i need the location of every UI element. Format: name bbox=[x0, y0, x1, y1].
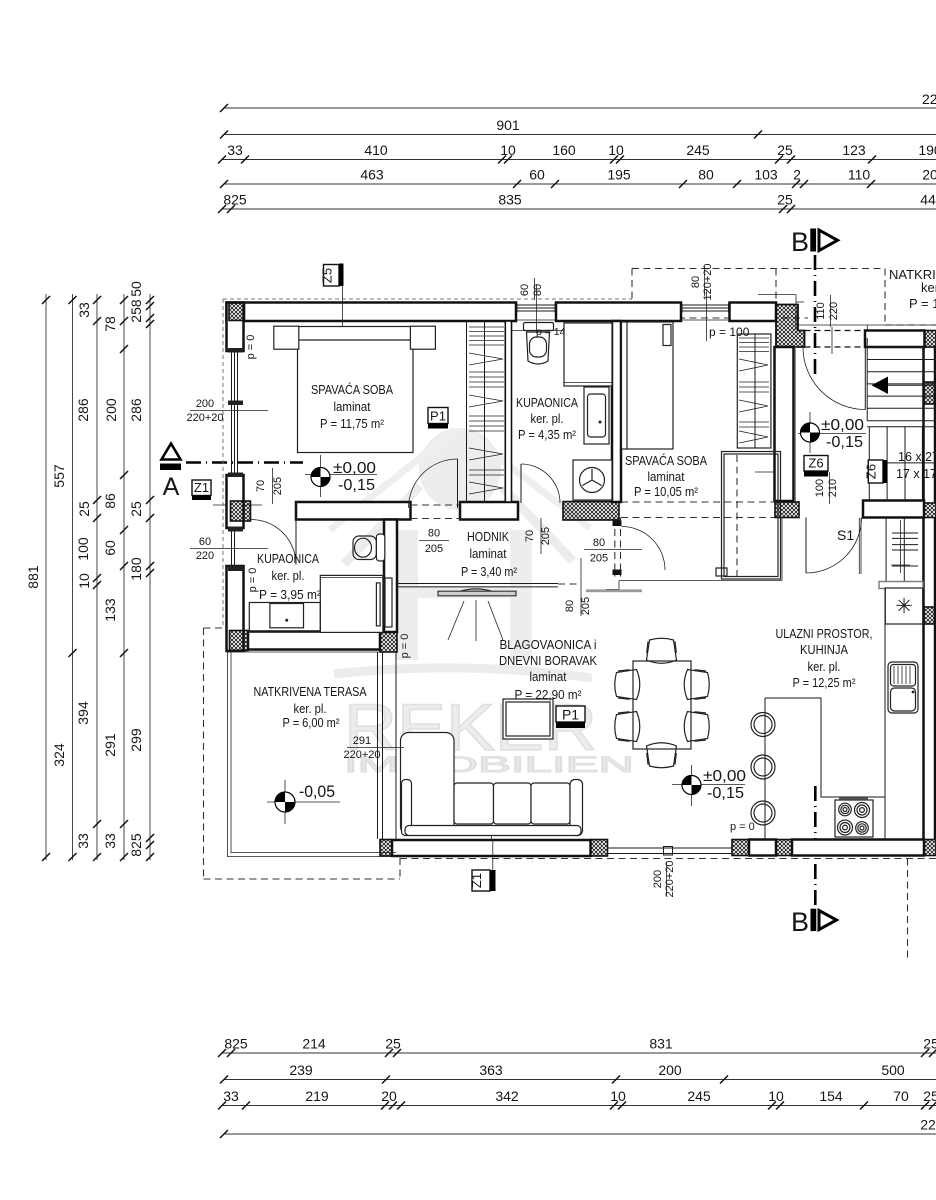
svg-text:laminat: laminat bbox=[470, 546, 507, 561]
svg-text:25: 25 bbox=[777, 142, 793, 158]
svg-text:33: 33 bbox=[75, 833, 91, 849]
svg-text:Z1: Z1 bbox=[194, 480, 209, 495]
svg-text:ker. pl.: ker. pl. bbox=[531, 411, 564, 426]
stove bbox=[835, 799, 873, 838]
svg-text:-0,15: -0,15 bbox=[338, 477, 375, 494]
svg-text:70: 70 bbox=[255, 480, 267, 492]
pier landing wall right bbox=[925, 331, 936, 348]
rotated 80/205 hodnik passage bbox=[564, 558, 592, 616]
svg-text:laminat: laminat bbox=[530, 669, 567, 684]
svg-text:KUPAONICA: KUPAONICA bbox=[257, 551, 319, 566]
svg-text:33: 33 bbox=[102, 833, 118, 849]
sliding glass door south (200/220+20) bbox=[608, 847, 733, 856]
svg-text:25: 25 bbox=[923, 1088, 936, 1104]
stairs direction line lower bbox=[891, 520, 910, 573]
door bathroom2 (70/205) bbox=[251, 520, 296, 565]
left dimension chain line 1 (x=46) bbox=[25, 294, 50, 861]
svg-text:825: 825 bbox=[128, 833, 144, 857]
closet strip bedroom1 bbox=[467, 321, 505, 501]
room label bedroom2 bbox=[625, 453, 707, 499]
svg-text:500: 500 bbox=[881, 1062, 905, 1078]
svg-text:ULAZNI PROSTOR,: ULAZNI PROSTOR, bbox=[776, 626, 873, 641]
svg-text:80: 80 bbox=[690, 276, 702, 288]
svg-text:20: 20 bbox=[381, 1088, 397, 1104]
svg-text:33: 33 bbox=[76, 302, 92, 318]
svg-text:881: 881 bbox=[25, 565, 41, 589]
fan lines door symbol bbox=[448, 600, 503, 641]
svg-text:60: 60 bbox=[102, 540, 118, 556]
bottom dimension chain line 4 bbox=[220, 1117, 936, 1139]
bottom dimension chain line 1 bbox=[218, 1036, 936, 1058]
wall: left exterior segment 3 bbox=[227, 566, 244, 651]
svg-text:205: 205 bbox=[272, 477, 284, 495]
wall: left exterior segment 2 bbox=[227, 475, 244, 528]
svg-text:25: 25 bbox=[128, 501, 144, 517]
svg-text:10: 10 bbox=[608, 142, 624, 158]
svg-text:P = 3,95 m²: P = 3,95 m² bbox=[259, 587, 322, 602]
svg-text:ker. pl.: ker. pl. bbox=[808, 659, 841, 674]
fridge with star bbox=[885, 588, 922, 624]
svg-text:S1: S1 bbox=[837, 527, 854, 543]
door bathroom1 (70/205) bbox=[521, 464, 560, 503]
door bedroom1 (80/205) bbox=[409, 459, 458, 508]
svg-text:205: 205 bbox=[590, 553, 608, 565]
svg-text:70: 70 bbox=[524, 530, 536, 542]
svg-text:17 x 17,: 17 x 17, bbox=[896, 467, 936, 481]
terrace dashed outline bbox=[204, 628, 401, 879]
svg-text:154: 154 bbox=[819, 1088, 843, 1104]
fraction 291/220+20 terrace bbox=[343, 735, 404, 761]
top dimension chain line 3 bbox=[218, 142, 936, 164]
svg-text:80: 80 bbox=[593, 537, 605, 549]
svg-text:SPAVAĆA SOBA: SPAVAĆA SOBA bbox=[311, 382, 393, 397]
svg-text:20: 20 bbox=[922, 167, 936, 183]
svg-text:33: 33 bbox=[227, 142, 243, 158]
bar stools bbox=[751, 713, 775, 826]
svg-text:220+20: 220+20 bbox=[343, 749, 380, 761]
pier south-east corner bbox=[924, 840, 936, 856]
svg-text:KUPAONICA: KUPAONICA bbox=[516, 395, 578, 410]
stair side edge entry bbox=[859, 518, 861, 574]
rotated 70/205 bathroom1 door bbox=[524, 518, 552, 554]
svg-text:160: 160 bbox=[552, 142, 576, 158]
neighbour slab thin outline bbox=[758, 295, 804, 331]
svg-text:P = 3,40 m²: P = 3,40 m² bbox=[461, 564, 518, 579]
pier wall row right bbox=[775, 502, 799, 518]
pier top-left corner bbox=[229, 303, 245, 321]
svg-text:195: 195 bbox=[607, 167, 631, 183]
svg-text:463: 463 bbox=[360, 167, 384, 183]
svg-text:258: 258 bbox=[128, 299, 144, 323]
svg-text:363: 363 bbox=[479, 1062, 503, 1078]
svg-text:P = 10,05 m²: P = 10,05 m² bbox=[634, 484, 699, 499]
section marker B bottom bbox=[791, 907, 837, 937]
svg-text:120+20: 120+20 bbox=[702, 263, 714, 300]
door bedroom2 (80/205) dashed leaf bbox=[613, 518, 666, 577]
svg-text:100: 100 bbox=[814, 479, 826, 497]
svg-text:200: 200 bbox=[658, 1062, 682, 1078]
fraction 60/220 left window2 bbox=[190, 536, 268, 562]
wall: left exterior segment 1 bbox=[227, 303, 244, 352]
pier stairs wall right bbox=[924, 503, 936, 518]
svg-text:299: 299 bbox=[128, 728, 144, 752]
svg-text:±0,00: ±0,00 bbox=[703, 768, 746, 785]
svg-text:DNEVNI BORAVAK: DNEVNI BORAVAK bbox=[499, 653, 597, 668]
svg-text:86: 86 bbox=[102, 493, 118, 509]
level marker kitchen bbox=[672, 765, 746, 806]
svg-text:B: B bbox=[791, 907, 809, 937]
door S1 entry (100/210) bbox=[806, 518, 862, 574]
svg-text:P = 11,75 m²: P = 11,75 m² bbox=[320, 416, 385, 431]
wall bedroom2 right bbox=[775, 347, 794, 501]
svg-text:214: 214 bbox=[302, 1036, 326, 1052]
fraction 200/220+20 left window bbox=[186, 398, 268, 424]
room label hodnik bbox=[461, 529, 518, 579]
svg-text:P1: P1 bbox=[562, 707, 579, 723]
svg-text:p = 100: p = 100 bbox=[709, 325, 750, 339]
dashed wall row bedroom2 bbox=[621, 502, 775, 518]
wall bathroom2 bottom bbox=[248, 632, 380, 650]
svg-text:2: 2 bbox=[793, 167, 801, 183]
wall living south bbox=[392, 840, 591, 856]
svg-text:410: 410 bbox=[364, 142, 388, 158]
neighbour terrace label bbox=[889, 267, 936, 311]
svg-text:103: 103 bbox=[754, 167, 778, 183]
wall bathroom1 right bbox=[612, 321, 621, 502]
left dimension chain line 5 (x=150) bbox=[128, 281, 154, 861]
svg-text:BLAGOVAONICA i: BLAGOVAONICA i bbox=[500, 637, 597, 652]
bottom dimension chain line 2 bbox=[220, 1062, 936, 1084]
svg-text:KUHINJA: KUHINJA bbox=[800, 642, 848, 657]
bed bedroom2 bbox=[622, 322, 674, 449]
tag Z5 bbox=[320, 264, 344, 341]
svg-text:324: 324 bbox=[51, 743, 67, 767]
washbasin bathroom1 bbox=[584, 387, 609, 444]
level marker terrace -0,05 bbox=[267, 780, 340, 824]
svg-text:P1: P1 bbox=[430, 409, 446, 424]
svg-text:220: 220 bbox=[828, 302, 840, 320]
window 200/220+20 in left wall bbox=[228, 348, 243, 477]
entry floor edge bbox=[606, 518, 782, 590]
svg-text:laminat: laminat bbox=[648, 469, 685, 484]
dashed vertical bottom right bbox=[907, 859, 909, 963]
section line B-B bottom bbox=[814, 786, 817, 906]
svg-text:ker. pl.: ker. pl. bbox=[294, 701, 327, 716]
fraction 80/205 bedroom2 door bbox=[584, 537, 642, 565]
svg-text:825: 825 bbox=[223, 192, 247, 208]
svg-text:-0,15: -0,15 bbox=[707, 785, 744, 802]
room label living bbox=[499, 637, 597, 702]
svg-text:±0,00: ±0,00 bbox=[333, 460, 376, 477]
roof overhang dashed outline left bbox=[222, 299, 224, 628]
svg-text:825: 825 bbox=[224, 1036, 248, 1052]
svg-text:239: 239 bbox=[289, 1062, 313, 1078]
svg-text:25: 25 bbox=[385, 1036, 401, 1052]
svg-text:44,: 44, bbox=[920, 192, 936, 208]
section line B-B top bbox=[814, 255, 817, 376]
tag Z1 bottom bbox=[469, 790, 496, 891]
wall row segment right of bedroom1 door bbox=[460, 502, 518, 520]
fraction 80/205 bedroom1 door bbox=[419, 528, 449, 556]
section line A-A bbox=[186, 461, 303, 464]
wall landing top bbox=[865, 331, 925, 348]
svg-text:10: 10 bbox=[500, 142, 516, 158]
rotated 110/220 landing bbox=[815, 295, 840, 354]
wall kitchen south bbox=[792, 840, 924, 856]
svg-text:205: 205 bbox=[425, 543, 443, 555]
svg-text:25: 25 bbox=[76, 501, 92, 517]
dashed opening bedroom1 door bbox=[411, 505, 461, 519]
sofa chaise bbox=[401, 733, 455, 835]
svg-text:342: 342 bbox=[495, 1088, 519, 1104]
rotated 80/120+20 window2 top bbox=[690, 263, 714, 341]
top dimension chain line 4 bbox=[220, 167, 936, 189]
bottom dashed line under south wall bbox=[400, 858, 936, 860]
svg-text:200: 200 bbox=[652, 870, 664, 888]
svg-text:394: 394 bbox=[75, 701, 91, 725]
svg-text:200: 200 bbox=[196, 398, 214, 410]
svg-text:219: 219 bbox=[305, 1088, 329, 1104]
coffee table bbox=[503, 699, 553, 739]
svg-text:205: 205 bbox=[540, 527, 552, 545]
level marker bedroom1 bbox=[305, 455, 377, 497]
left dimension chain line 3 (x=97) bbox=[75, 294, 101, 861]
tag Z6 stairs bbox=[864, 460, 888, 483]
svg-text:33: 33 bbox=[223, 1088, 239, 1104]
pier south wall left of entry bbox=[732, 840, 749, 856]
svg-text:25: 25 bbox=[923, 1036, 936, 1052]
svg-text:220: 220 bbox=[196, 550, 214, 562]
pier wall row center bbox=[563, 502, 619, 521]
svg-text:80: 80 bbox=[564, 600, 576, 612]
svg-text:10: 10 bbox=[768, 1088, 784, 1104]
left dimension chain line 2 (x=72.5) bbox=[51, 294, 77, 861]
room label bathroom1 bbox=[516, 395, 578, 442]
parapet line p140 bbox=[512, 330, 613, 332]
svg-text:laminat: laminat bbox=[334, 399, 371, 414]
watermark logo bbox=[330, 428, 592, 678]
rotated 100/210 landing door bbox=[814, 472, 839, 504]
pier south wall right of entry bbox=[776, 840, 792, 856]
kitchen island and counter outline bbox=[765, 588, 885, 840]
pier terrace top right bbox=[380, 632, 397, 653]
wall stairs row bbox=[863, 501, 924, 518]
wall: top exterior segment 2 bbox=[556, 303, 681, 322]
stairs lower flight bbox=[886, 518, 923, 582]
svg-text:205: 205 bbox=[580, 597, 592, 615]
shower bathroom1 bbox=[564, 323, 612, 386]
svg-text:P = 4,35 m²: P = 4,35 m² bbox=[518, 427, 577, 442]
svg-text:286: 286 bbox=[75, 398, 91, 422]
svg-text:70: 70 bbox=[893, 1088, 909, 1104]
svg-text:286: 286 bbox=[128, 398, 144, 422]
svg-text:78: 78 bbox=[102, 316, 118, 332]
pier left wall row bbox=[231, 501, 251, 521]
stairs upper flight bbox=[867, 338, 934, 427]
room label terrace bbox=[254, 684, 367, 730]
svg-text:p = 0: p = 0 bbox=[247, 568, 259, 593]
svg-text:22,: 22, bbox=[922, 91, 936, 107]
window 60/80 in top wall bbox=[516, 304, 556, 321]
window p=100 in top wall bbox=[681, 304, 730, 321]
toilet bathroom2 bbox=[353, 534, 385, 561]
neighbour terrace dashed outline top right bbox=[632, 269, 936, 331]
top dimension chain line 1 bbox=[220, 91, 936, 112]
stairs direction arrow bbox=[872, 377, 935, 395]
tag P1 living bbox=[556, 706, 585, 728]
wall: top exterior segment 1 bbox=[227, 303, 517, 322]
bottom dimension chain line 3 bbox=[218, 1088, 936, 1110]
svg-text:P = 6,00 m²: P = 6,00 m² bbox=[283, 715, 341, 730]
svg-text:-0,05: -0,05 bbox=[299, 782, 335, 801]
bed bedroom1 bbox=[274, 326, 436, 452]
svg-text:60: 60 bbox=[199, 536, 211, 548]
kitchen counter right front edge upper bbox=[884, 588, 886, 798]
wall south entry segment bbox=[749, 840, 776, 856]
top dimension chain line 5 bbox=[218, 192, 936, 214]
svg-text:220+20: 220+20 bbox=[664, 860, 676, 897]
sofa left armrest bbox=[402, 780, 412, 836]
pier right wall upper bbox=[924, 382, 936, 404]
svg-text:22,: 22, bbox=[920, 1117, 936, 1133]
window 60/220 in left wall bbox=[228, 527, 243, 572]
roof overhang dashed outline top bbox=[223, 298, 632, 300]
svg-text:110: 110 bbox=[815, 302, 827, 320]
svg-text:ker. pl.: ker. pl. bbox=[272, 568, 305, 583]
svg-text:Z6: Z6 bbox=[808, 456, 823, 471]
svg-text:133: 133 bbox=[102, 598, 118, 622]
wardrobe bedroom2 bbox=[737, 334, 771, 448]
svg-text:P = 22,90 m²: P = 22,90 m² bbox=[515, 687, 583, 702]
svg-text:SPAVAĆA SOBA: SPAVAĆA SOBA bbox=[625, 453, 707, 468]
pier left bottom (bathroom2) bbox=[230, 631, 249, 651]
dining table bbox=[633, 661, 691, 749]
svg-text:80: 80 bbox=[428, 528, 440, 540]
terrace slab edge bbox=[228, 649, 398, 857]
radiator bathroom2 wall bbox=[385, 578, 392, 627]
svg-text:190: 190 bbox=[918, 142, 936, 158]
hodnik-living thin wall bbox=[397, 584, 577, 587]
sliding door panel hodnik bbox=[438, 589, 516, 596]
level marker landing bbox=[798, 412, 866, 453]
terrace glazed wall (291/220+20) bbox=[378, 652, 397, 839]
kitchen sink unit bbox=[888, 662, 918, 713]
svg-text:-0,15: -0,15 bbox=[826, 434, 863, 451]
svg-text:±0,00: ±0,00 bbox=[821, 417, 864, 434]
svg-text:✳: ✳ bbox=[895, 595, 913, 618]
room label bedroom1 bbox=[311, 382, 393, 431]
rotated 60/80 window1 top bbox=[519, 278, 544, 333]
svg-text:P = 12,25 m²: P = 12,25 m² bbox=[793, 675, 857, 690]
svg-text:16 x 27: 16 x 27 bbox=[898, 450, 936, 464]
toilet bathroom1 bbox=[524, 323, 554, 365]
entry tall cabinet bbox=[716, 452, 781, 580]
wall: top exterior segment 3 bbox=[730, 303, 777, 322]
svg-text:123: 123 bbox=[842, 142, 866, 158]
section marker A bbox=[160, 444, 262, 506]
svg-text:901: 901 bbox=[496, 117, 520, 133]
svg-text:835: 835 bbox=[498, 192, 522, 208]
stairs balustrade bar bbox=[879, 582, 923, 589]
pier right wall kitchen bbox=[924, 607, 936, 624]
svg-text:HODNIK: HODNIK bbox=[467, 529, 509, 544]
svg-text:50: 50 bbox=[128, 281, 144, 297]
threshold bar bbox=[586, 589, 642, 592]
svg-text:p = 0: p = 0 bbox=[399, 634, 411, 659]
pier south wall right of living bbox=[591, 840, 608, 857]
svg-text:245: 245 bbox=[687, 1088, 711, 1104]
svg-text:291: 291 bbox=[102, 733, 118, 757]
shower bathroom2 bbox=[320, 575, 383, 632]
tag Z6 landing bbox=[804, 456, 828, 477]
fraction 200/220+20 bottom rotated bbox=[652, 860, 676, 897]
svg-text:180: 180 bbox=[128, 557, 144, 581]
svg-text:P = 1,: P = 1, bbox=[909, 296, 936, 311]
svg-text:60: 60 bbox=[519, 284, 531, 296]
vanity bathroom2 bbox=[249, 603, 320, 633]
svg-text:100: 100 bbox=[75, 537, 91, 561]
svg-text:A: A bbox=[163, 473, 180, 501]
sofa cushions bbox=[405, 780, 583, 836]
svg-text:B: B bbox=[791, 227, 809, 257]
washing machine bathroom1 bbox=[573, 460, 612, 500]
tag P1 bedroom1 bbox=[428, 408, 448, 429]
dining chairs bbox=[615, 638, 710, 768]
svg-text:80: 80 bbox=[532, 284, 544, 296]
wall right exterior bbox=[924, 347, 936, 840]
svg-text:p = 0: p = 0 bbox=[730, 821, 755, 833]
svg-text:60: 60 bbox=[529, 167, 545, 183]
left dimension chain line 4 (x=124) bbox=[102, 294, 128, 861]
svg-text:291: 291 bbox=[353, 735, 371, 747]
svg-text:200: 200 bbox=[103, 398, 119, 422]
svg-text:110: 110 bbox=[848, 167, 871, 183]
door landing exterior (110/220) bbox=[803, 347, 865, 410]
wall row segment between doors bbox=[296, 502, 411, 520]
svg-text:10: 10 bbox=[610, 1088, 626, 1104]
wall bathroom1 left bbox=[505, 321, 511, 502]
svg-text:Z5: Z5 bbox=[320, 268, 335, 283]
room label entry kitchen bbox=[776, 626, 873, 690]
svg-text:ker: ker bbox=[921, 280, 936, 295]
svg-text:245: 245 bbox=[686, 142, 710, 158]
top dimension chain line 2 (901) bbox=[220, 117, 936, 139]
svg-text:25: 25 bbox=[777, 192, 793, 208]
svg-text:p = 0: p = 0 bbox=[245, 335, 257, 360]
room label bathroom2 bbox=[257, 551, 322, 602]
section marker B top bbox=[791, 227, 838, 257]
stairs middle columns bbox=[869, 427, 934, 501]
svg-text:210: 210 bbox=[827, 479, 839, 497]
svg-text:NATKRIVENA TERASA: NATKRIVENA TERASA bbox=[254, 684, 367, 699]
svg-text:220+20: 220+20 bbox=[186, 412, 223, 424]
svg-text:Z1: Z1 bbox=[469, 873, 484, 888]
svg-text:Z6: Z6 bbox=[864, 464, 879, 479]
pier terrace bottom right bbox=[380, 840, 392, 857]
svg-text:80: 80 bbox=[698, 167, 714, 183]
tag Z1 left bbox=[192, 480, 211, 500]
svg-text:831: 831 bbox=[649, 1036, 673, 1052]
rotated 70/205 bathroom2 door bbox=[255, 468, 284, 504]
wall bathroom2 right bbox=[384, 520, 397, 633]
pier north-east corner bbox=[776, 305, 805, 348]
svg-text:10: 10 bbox=[76, 573, 92, 589]
svg-text:557: 557 bbox=[51, 464, 67, 488]
svg-text:IMMOBILIEN: IMMOBILIEN bbox=[344, 752, 634, 777]
